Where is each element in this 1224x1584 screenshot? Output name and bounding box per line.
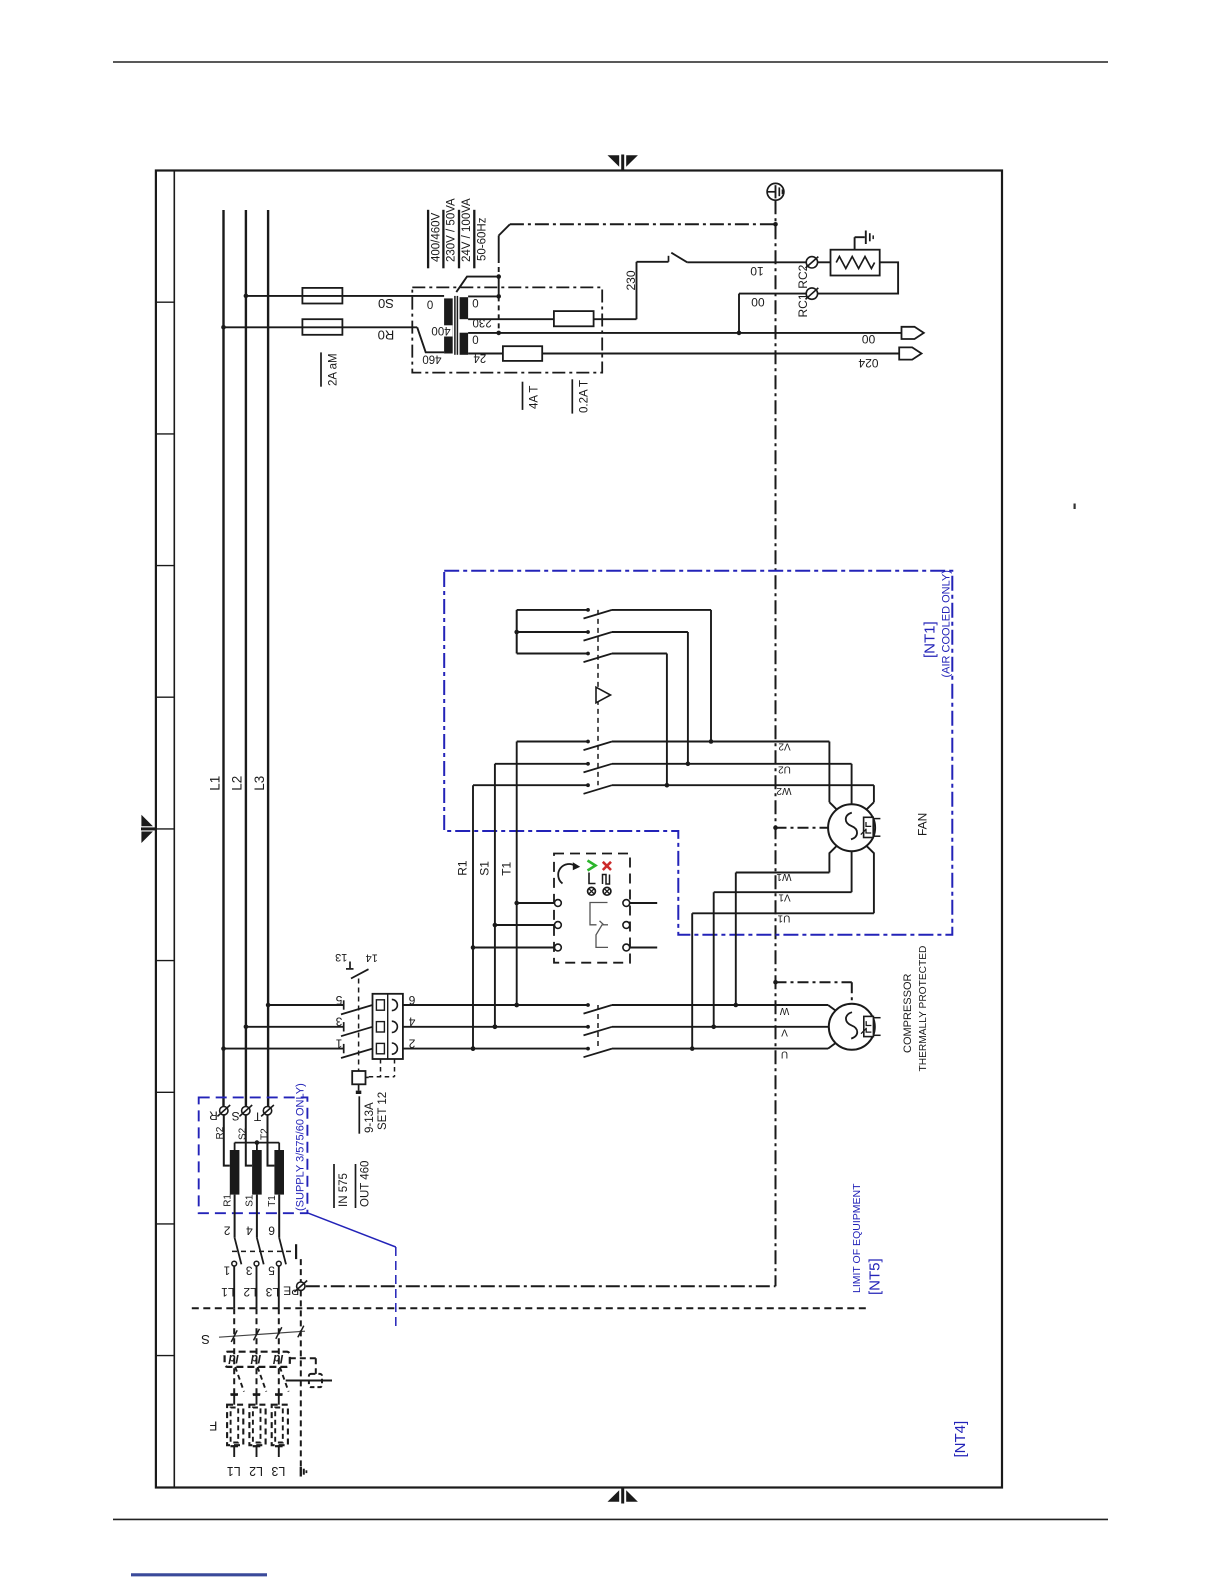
svg-text:1: 1 xyxy=(335,1036,342,1050)
svg-text:0: 0 xyxy=(472,296,478,308)
svg-text:2: 2 xyxy=(223,1223,230,1237)
svg-text:13: 13 xyxy=(335,951,347,963)
svg-text:R0: R0 xyxy=(378,328,395,343)
svg-text:1: 1 xyxy=(223,1263,230,1277)
svg-text:L1: L1 xyxy=(227,1464,241,1478)
svg-text:IN 575: IN 575 xyxy=(338,1173,350,1207)
svg-text:L1: L1 xyxy=(221,1285,235,1299)
svg-text:4: 4 xyxy=(246,1223,253,1237)
svg-text:RC1: RC1 xyxy=(796,293,810,317)
svg-text:0: 0 xyxy=(472,332,478,344)
svg-text:(SUPPLY 3/575/60 ONLY): (SUPPLY 3/575/60 ONLY) xyxy=(295,1083,307,1211)
svg-text:2: 2 xyxy=(408,1036,415,1050)
svg-text:S: S xyxy=(201,1332,210,1347)
svg-text:OUT 460: OUT 460 xyxy=(360,1161,372,1207)
svg-text:S2: S2 xyxy=(237,1127,248,1140)
svg-text:4: 4 xyxy=(408,1015,415,1029)
svg-text:00: 00 xyxy=(751,295,765,309)
svg-text:L3: L3 xyxy=(265,1285,279,1299)
svg-text:(AIR COOLED ONLY): (AIR COOLED ONLY) xyxy=(941,570,953,677)
svg-text:L2: L2 xyxy=(243,1285,257,1299)
svg-text:00: 00 xyxy=(862,332,876,346)
svg-text:R1: R1 xyxy=(222,1194,233,1207)
svg-text:24V / 100VA: 24V / 100VA xyxy=(461,198,473,262)
svg-text:Id: Id xyxy=(272,1352,283,1364)
svg-text:U2: U2 xyxy=(778,764,791,775)
svg-text:50-60Hz: 50-60Hz xyxy=(477,217,489,261)
svg-text:Id: Id xyxy=(228,1352,239,1364)
svg-text:R2: R2 xyxy=(215,1126,226,1139)
svg-text:9-13A: 9-13A xyxy=(364,1102,376,1133)
svg-text:230V / 50VA: 230V / 50VA xyxy=(446,198,458,262)
svg-text:L2: L2 xyxy=(249,1464,263,1478)
svg-text:S1: S1 xyxy=(245,1194,256,1207)
svg-text:5: 5 xyxy=(335,993,342,1007)
svg-text:R: R xyxy=(209,1108,218,1122)
svg-text:THERMALLY PROTECTED: THERMALLY PROTECTED xyxy=(918,946,929,1072)
svg-text:SET 12: SET 12 xyxy=(377,1092,389,1130)
svg-text:T: T xyxy=(253,1109,261,1123)
svg-text:F: F xyxy=(209,1419,217,1434)
svg-text:[NT4]: [NT4] xyxy=(952,1421,969,1458)
svg-text:R1: R1 xyxy=(456,860,470,876)
svg-text:RC2: RC2 xyxy=(796,264,810,288)
svg-text:V1: V1 xyxy=(778,891,791,902)
svg-text:3: 3 xyxy=(246,1263,253,1277)
svg-text:S1: S1 xyxy=(478,861,492,876)
svg-text:W: W xyxy=(779,1005,789,1016)
svg-text:[NT5]: [NT5] xyxy=(867,1258,884,1295)
svg-text:400: 400 xyxy=(431,324,450,336)
svg-text:COMPRESSOR: COMPRESSOR xyxy=(902,973,914,1053)
svg-text:V2: V2 xyxy=(778,741,791,752)
svg-text:T1: T1 xyxy=(267,1195,278,1207)
svg-text:5: 5 xyxy=(268,1263,275,1277)
svg-text:2A aM: 2A aM xyxy=(328,353,340,386)
svg-text:V: V xyxy=(781,1027,788,1038)
svg-text:0.2A T: 0.2A T xyxy=(578,380,590,413)
svg-text:L2: L2 xyxy=(230,776,245,791)
svg-text:6: 6 xyxy=(408,993,415,1007)
svg-text:3: 3 xyxy=(335,1015,342,1029)
svg-text:[NT1]: [NT1] xyxy=(922,621,939,658)
svg-text:10: 10 xyxy=(750,264,764,278)
svg-text:L3: L3 xyxy=(252,776,267,791)
svg-text:W2: W2 xyxy=(776,785,791,796)
svg-text:L3: L3 xyxy=(271,1464,285,1478)
svg-text:W1: W1 xyxy=(776,871,791,882)
svg-text:S: S xyxy=(232,1109,240,1123)
svg-text:024: 024 xyxy=(858,356,878,370)
svg-text:230: 230 xyxy=(624,270,638,290)
svg-text:0: 0 xyxy=(427,297,433,309)
svg-text:Id: Id xyxy=(250,1352,261,1364)
svg-text:T2: T2 xyxy=(260,1128,271,1140)
svg-text:14: 14 xyxy=(366,952,378,964)
svg-text:460: 460 xyxy=(422,353,441,365)
svg-text:U1: U1 xyxy=(777,912,790,923)
svg-text:T1: T1 xyxy=(500,861,514,875)
svg-text:LIMIT OF EQUIPMENT: LIMIT OF EQUIPMENT xyxy=(851,1183,863,1293)
svg-text:FAN: FAN xyxy=(916,813,930,836)
svg-text:6: 6 xyxy=(268,1223,275,1237)
svg-text:U: U xyxy=(781,1048,788,1059)
svg-text:S0: S0 xyxy=(378,296,394,311)
svg-text:230: 230 xyxy=(473,316,492,328)
svg-text:4A T: 4A T xyxy=(529,386,541,409)
svg-text:400/460V: 400/460V xyxy=(430,212,442,262)
svg-text:L1: L1 xyxy=(207,776,222,791)
